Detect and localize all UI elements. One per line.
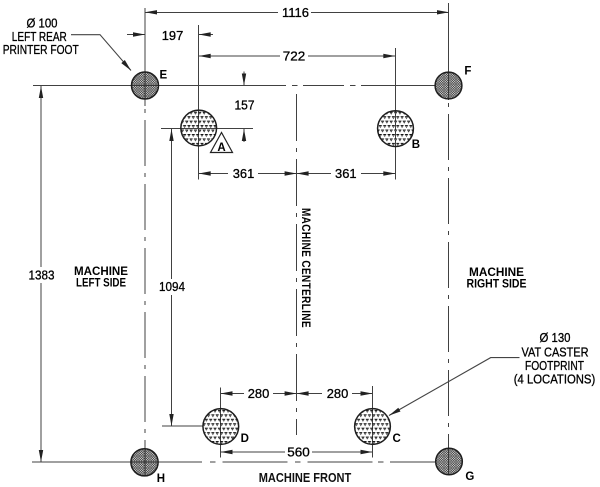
vat caster D	[203, 409, 239, 445]
svg-text:C: C	[393, 433, 401, 445]
svg-text:280: 280	[248, 386, 270, 401]
svg-text:B: B	[412, 139, 420, 151]
wire machine centerline vertical	[296, 94, 298, 435]
svg-text:361: 361	[335, 166, 357, 181]
svg-text:560: 560	[287, 445, 310, 460]
svg-text:1116: 1116	[282, 5, 309, 20]
dimension 197	[127, 32, 213, 36]
svg-text:1094: 1094	[159, 279, 185, 294]
svg-text:MACHINE FRONT: MACHINE FRONT	[259, 470, 352, 485]
wire extension line left of D horizontal	[162, 425, 203, 427]
wire extension line A vertical	[198, 25, 200, 180]
printer foot F	[435, 72, 462, 99]
svg-text:MACHINE CENTERLINE: MACHINE CENTERLINE	[299, 208, 313, 328]
dimension 722	[199, 54, 396, 58]
wire bottom horizontal centerline through H and G (MACHINE FRONT line)	[32, 461, 437, 463]
dimension 157	[242, 72, 246, 143]
label vat caster footprint	[514, 330, 596, 387]
svg-text:1383: 1383	[29, 267, 55, 282]
datum triangle A	[211, 133, 233, 155]
dimension 280 left	[221, 391, 297, 395]
dimension 280 right	[297, 391, 373, 395]
wire top horizontal centerline through E and F	[33, 85, 435, 87]
svg-text:E: E	[160, 70, 168, 82]
dimension 1094	[169, 129, 173, 426]
svg-text:PRINTER FOOT: PRINTER FOOT	[3, 42, 79, 57]
printer foot G	[436, 448, 463, 475]
vat caster C	[355, 409, 391, 445]
svg-text:F: F	[464, 65, 471, 77]
vat caster A	[181, 110, 217, 146]
label machine left side	[74, 264, 128, 290]
svg-text:(4 LOCATIONS): (4 LOCATIONS)	[514, 372, 596, 387]
svg-text:A: A	[217, 142, 225, 154]
printer foot H	[131, 449, 158, 476]
printer foot E	[132, 72, 159, 99]
vat caster B	[378, 111, 414, 147]
svg-text:722: 722	[283, 49, 306, 64]
leader vat caster footprint	[389, 358, 520, 416]
svg-text:280: 280	[327, 386, 349, 401]
label left rear printer foot	[3, 16, 79, 58]
wire right vertical centerline through F and G	[448, 3, 450, 475]
dimension 1116	[145, 10, 449, 14]
svg-text:H: H	[157, 473, 165, 485]
wire extension line C vertical	[372, 386, 374, 458]
dimension 1383	[39, 86, 43, 462]
dimension 560	[221, 450, 373, 454]
svg-text:RIGHT SIDE: RIGHT SIDE	[467, 277, 527, 291]
svg-text:Ø 130: Ø 130	[540, 330, 571, 345]
label machine right side	[467, 265, 527, 291]
wire left vertical centerline through E and H	[144, 8, 146, 477]
svg-text:157: 157	[235, 97, 255, 112]
leader left rear printer foot	[71, 35, 131, 71]
wire extension line B vertical	[394, 48, 396, 180]
svg-text:197: 197	[162, 28, 184, 43]
wire extension line through A horizontal	[161, 128, 253, 130]
dimension 361 right	[297, 171, 396, 175]
svg-text:D: D	[241, 433, 249, 445]
dimension 361 left	[199, 171, 297, 175]
wire extension line D vertical	[220, 388, 222, 458]
svg-text:361: 361	[233, 166, 255, 181]
svg-text:G: G	[465, 471, 474, 483]
svg-text:LEFT SIDE: LEFT SIDE	[76, 276, 126, 290]
